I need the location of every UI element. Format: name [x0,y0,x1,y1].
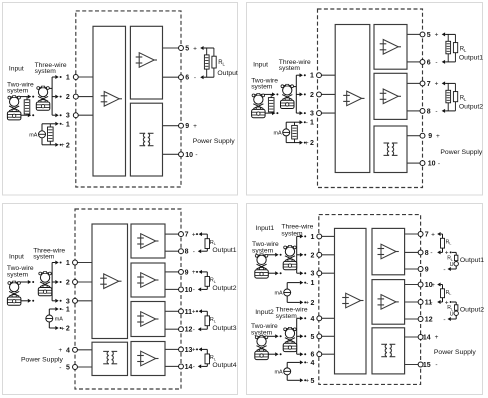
svg-text:RL: RL [210,317,217,323]
svg-text:-: - [306,360,308,367]
svg-text:1: 1 [310,73,314,80]
svg-text:system: system [251,329,273,336]
svg-text:Output1: Output1 [460,257,484,264]
svg-text:+: + [436,133,440,140]
svg-text:mA: mA [274,131,282,137]
svg-text:mA: mA [275,370,283,376]
svg-text:4: 4 [310,316,314,323]
svg-text:5: 5 [310,334,314,341]
svg-text:+: + [192,231,196,238]
svg-text:system: system [7,271,29,278]
svg-text:system: system [252,248,274,255]
svg-text:-: - [435,59,437,66]
svg-text:8: 8 [425,250,429,257]
svg-text:10: 10 [185,287,193,294]
svg-text:system: system [251,84,273,91]
svg-text:5: 5 [66,365,70,372]
svg-text:-: - [193,249,195,256]
svg-text:Output2: Output2 [460,306,484,313]
svg-text:12: 12 [185,327,193,334]
svg-text:+: + [431,231,435,238]
svg-text:-: - [430,250,432,257]
svg-text:mA: mA [29,133,37,139]
svg-text:1: 1 [66,260,70,267]
svg-text:system: system [279,65,301,72]
svg-text:Input: Input [9,254,24,261]
svg-text:8: 8 [427,108,431,115]
svg-text:Power Supply: Power Supply [434,349,477,356]
svg-text:9: 9 [185,269,189,276]
svg-text:-: - [306,120,308,127]
svg-text:+: + [431,282,435,289]
svg-text:Output: Output [217,70,238,77]
svg-text:2: 2 [310,252,314,259]
svg-text:1: 1 [66,307,70,314]
svg-text:Output1: Output1 [459,55,483,62]
svg-text:3: 3 [310,111,314,118]
svg-text:RL: RL [210,278,217,284]
svg-text:10: 10 [428,161,436,168]
svg-text:+: + [435,32,439,39]
svg-text:9: 9 [428,133,432,140]
svg-text:+: + [61,325,65,332]
svg-text:U: U [450,312,454,318]
svg-text:3: 3 [66,113,70,120]
svg-text:Output3: Output3 [212,325,236,332]
svg-text:-: - [443,266,445,273]
svg-text:2: 2 [66,94,70,101]
svg-text:7: 7 [185,232,189,239]
svg-text:2: 2 [66,326,70,333]
svg-text:+: + [192,347,196,354]
svg-text:-: - [443,316,445,323]
svg-text:-: - [194,75,196,82]
svg-text:mA: mA [275,291,283,297]
svg-text:6: 6 [427,59,431,66]
svg-text:system: system [35,68,57,75]
svg-text:2: 2 [310,300,314,307]
svg-text:-: - [59,364,61,371]
svg-text:2: 2 [66,142,70,149]
svg-text:RL: RL [210,240,217,246]
svg-text:6: 6 [185,75,189,82]
svg-text:-: - [193,364,195,371]
svg-text:15: 15 [423,362,431,369]
svg-text:system: system [276,313,298,320]
svg-text:system: system [33,254,55,261]
svg-text:4: 4 [66,347,70,354]
svg-text:-: - [435,108,437,115]
svg-text:5: 5 [427,32,431,39]
svg-text:Output4: Output4 [212,362,236,369]
svg-text:RL: RL [218,60,225,66]
svg-text:-: - [306,280,308,287]
svg-text:Output2: Output2 [459,104,483,111]
svg-text:+: + [193,45,197,52]
svg-text:-: - [193,287,195,294]
svg-text:+: + [305,378,309,385]
svg-text:+: + [435,81,439,88]
svg-text:-: - [62,306,64,313]
svg-text:system: system [281,230,303,237]
svg-text:6: 6 [310,352,314,359]
svg-text:2: 2 [66,280,70,287]
svg-text:-: - [430,299,432,306]
svg-text:Input: Input [9,65,24,72]
svg-text:7: 7 [425,232,429,239]
svg-text:1: 1 [310,120,314,127]
svg-text:1: 1 [66,75,70,82]
svg-text:mA: mA [55,317,63,323]
svg-text:+: + [192,269,196,276]
svg-text:+: + [61,142,65,149]
svg-text:Input1: Input1 [256,225,275,232]
svg-text:3: 3 [310,271,314,278]
svg-text:2: 2 [310,140,314,147]
svg-text:14: 14 [423,335,431,342]
svg-text:Power Supply: Power Supply [193,138,236,145]
svg-text:-: - [193,327,195,334]
svg-text:9: 9 [425,267,429,274]
svg-text:RL: RL [460,96,467,102]
svg-text:-: - [62,121,64,128]
svg-text:8: 8 [185,249,189,256]
svg-text:1: 1 [66,121,70,128]
svg-text:12: 12 [425,317,433,324]
svg-text:system: system [7,88,29,95]
svg-text:RL: RL [210,355,217,361]
svg-text:14: 14 [185,364,193,371]
svg-text:7: 7 [427,81,431,88]
svg-text:10: 10 [185,152,193,159]
svg-text:3: 3 [66,298,70,305]
svg-text:+: + [305,140,309,147]
svg-text:4: 4 [310,360,314,367]
svg-text:U: U [450,262,454,268]
svg-text:RL: RL [460,47,467,53]
svg-text:1: 1 [310,280,314,287]
svg-text:+: + [192,309,196,316]
svg-text:+: + [58,347,62,354]
svg-text:Input2: Input2 [255,309,274,316]
svg-text:+: + [193,123,197,130]
svg-text:9: 9 [185,123,189,130]
svg-text:+: + [435,334,439,341]
svg-text:Power Supply: Power Supply [21,356,64,363]
svg-text:Power Supply: Power Supply [440,149,483,156]
svg-text:2: 2 [310,92,314,99]
svg-text:Output2: Output2 [212,285,236,292]
svg-text:-: - [435,362,437,369]
svg-text:1: 1 [310,234,314,241]
svg-text:5: 5 [185,46,189,53]
svg-text:-: - [438,160,440,167]
svg-text:-: - [195,152,197,159]
svg-text:Input: Input [253,62,268,69]
svg-text:Output1: Output1 [212,247,236,254]
svg-text:5: 5 [310,378,314,385]
